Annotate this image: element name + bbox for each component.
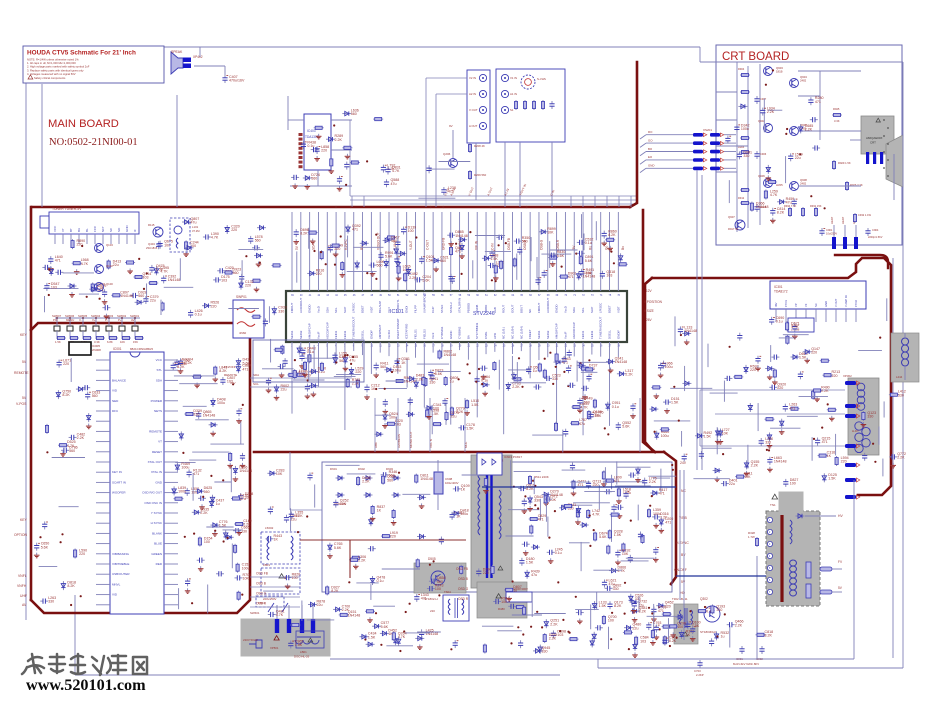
svg-text:560: 560 xyxy=(311,177,317,181)
resistor (right mid column) xyxy=(889,390,906,398)
svg-text:TN1: TN1 xyxy=(770,503,776,507)
svg-text:220: 220 xyxy=(334,247,340,251)
resistor (power box) xyxy=(594,532,608,542)
svg-text:1u: 1u xyxy=(533,369,537,373)
svg-text:STACL2: STACL2 xyxy=(449,302,453,313)
resistor (power regulation area) xyxy=(605,476,622,484)
FBT HV diode xyxy=(796,515,805,517)
svg-text:DSELL: DSELL xyxy=(608,329,612,339)
capacitor (above IC101 band) xyxy=(579,268,594,277)
capacitor (below IC101 upper) xyxy=(567,350,572,358)
capacitor (secondary rectifiers) xyxy=(544,497,552,502)
wire (above IC101 band) xyxy=(347,236,349,258)
IC101 bottom pin stubs xyxy=(291,342,293,414)
FBT core xyxy=(780,515,783,602)
svg-text:L5002: L5002 xyxy=(265,526,274,530)
wire (power bottom row) xyxy=(512,614,542,616)
svg-text:CYBSIN1: CYBSIN1 xyxy=(440,326,444,339)
svg-text:4.7K: 4.7K xyxy=(580,406,588,410)
svg-text:2.2K: 2.2K xyxy=(243,523,251,527)
svg-text:VID: VID xyxy=(112,389,118,393)
resistor (IF area) xyxy=(224,268,242,276)
resistor (bottom right) xyxy=(635,636,649,646)
resistor (below IC101 mid cluster) xyxy=(445,411,459,421)
resistor (deflection box) xyxy=(786,335,789,345)
junction (secondary rectifiers) xyxy=(554,510,556,512)
IC001 body xyxy=(110,352,164,614)
wire (power regulation area) xyxy=(598,485,600,509)
capacitor (power box) xyxy=(381,470,398,478)
svg-text:XTAL OUT: XTAL OUT xyxy=(148,460,163,464)
junction (IF area) xyxy=(245,255,247,257)
resistor (power box) xyxy=(365,610,375,623)
wire (deflection box) xyxy=(747,445,749,469)
wire (power regulation area) xyxy=(616,461,618,484)
resistor (power bottom band) xyxy=(483,644,486,654)
svg-text:LPISEC: LPISEC xyxy=(599,303,603,313)
junction (power bottom row) xyxy=(522,633,524,635)
crystal box xyxy=(253,340,364,382)
svg-text:220: 220 xyxy=(841,460,847,464)
wire (power bottom band) xyxy=(386,645,413,647)
capacitor (tuner area) xyxy=(156,241,161,249)
resistor (tuner area) xyxy=(72,258,89,274)
diode (above IC101 band) xyxy=(406,267,410,276)
junction (power box) xyxy=(409,603,411,605)
svg-text:1K: 1K xyxy=(461,488,466,492)
wire (below IC101 upper) xyxy=(334,376,356,378)
svg-text:1.5K: 1.5K xyxy=(339,355,347,359)
capacitor (left of MCU) xyxy=(82,385,90,390)
power top rail xyxy=(289,452,291,510)
junction (right of MCU) xyxy=(242,404,244,406)
capacitor (below IC101 upper) xyxy=(526,365,541,374)
svg-text:TDA1308: TDA1308 xyxy=(305,135,319,139)
svg-text:1N4148: 1N4148 xyxy=(774,459,787,463)
diode (below IC101 upper) xyxy=(414,380,418,389)
svg-text:BA: BA xyxy=(466,335,470,339)
svg-text:GREEN: GREEN xyxy=(151,552,162,556)
resistor (right of MCU) xyxy=(184,409,202,417)
capacitor (power bottom row) xyxy=(551,629,566,638)
svg-text:1K: 1K xyxy=(401,361,406,365)
diode (power bottom band) xyxy=(359,632,376,640)
capacitor (bottom right) xyxy=(709,638,714,646)
capacitor (left of MCU) xyxy=(57,359,72,368)
svg-text:100: 100 xyxy=(204,540,210,544)
resistor (below IC101 upper) xyxy=(438,350,456,360)
wire (below IC101 upper) xyxy=(581,371,598,373)
resistor (deflection box) xyxy=(660,428,670,431)
junction (right of MCU) xyxy=(210,475,212,477)
resistor (power bottom band) xyxy=(569,638,579,641)
svg-text:C907: C907 xyxy=(760,97,767,101)
wire (power box) xyxy=(314,484,316,507)
resistor (below IC101 upper) xyxy=(555,353,558,363)
wire (deflection box) xyxy=(787,415,818,417)
vertical bus from CRT to bottom xyxy=(696,170,698,470)
AV return wires xyxy=(426,77,467,79)
svg-text:330: 330 xyxy=(613,587,619,591)
svg-text:PBOBD: PBOBD xyxy=(466,303,470,313)
svg-text:5.6K: 5.6K xyxy=(334,546,342,550)
svg-text:2.2K: 2.2K xyxy=(549,637,557,641)
wire (power box) xyxy=(263,590,293,592)
resistor (above IC101 band) xyxy=(404,272,418,282)
capacitor (tuner area) xyxy=(44,282,59,291)
svg-text:C901: C901 xyxy=(826,228,833,232)
junction (below IC101 upper) xyxy=(307,379,309,381)
svg-text:2.2K: 2.2K xyxy=(735,623,743,627)
capacitor (deflection box) xyxy=(769,382,786,390)
wire (above IC101 band) xyxy=(541,253,571,255)
diode (right of MCU) xyxy=(209,423,218,436)
svg-text:3.3K: 3.3K xyxy=(834,119,840,123)
junction (power box) xyxy=(429,564,431,566)
capacitor (audio top-left) xyxy=(344,162,349,170)
svg-text:8.2K: 8.2K xyxy=(526,487,534,491)
junction (CRT board) xyxy=(772,69,774,71)
svg-text:VccIF: VccIF xyxy=(563,331,567,339)
svg-text:2.2K: 2.2K xyxy=(409,276,417,280)
wire (power box) xyxy=(307,619,334,621)
diode (deflection box) xyxy=(682,331,691,344)
svg-text:2.2K: 2.2K xyxy=(625,372,633,376)
diode (power regulation area) xyxy=(635,467,641,483)
resistor (bottom right) xyxy=(756,630,774,638)
junction (power regulation area) xyxy=(589,545,591,547)
svg-text:220: 220 xyxy=(245,284,251,288)
capacitor (deflection box) xyxy=(682,454,688,462)
diode (crystal box area) xyxy=(343,355,358,371)
CRT socket contacts xyxy=(866,152,869,164)
junction (right of MCU) xyxy=(241,594,243,596)
capacitor (right of MCU) xyxy=(197,558,205,572)
junction (power box) xyxy=(348,581,350,583)
svg-text:GOUT: GOUT xyxy=(511,304,515,313)
capacitor (CRT board) xyxy=(788,152,803,161)
junction (deflection box) xyxy=(821,427,823,429)
junction (secondary rectifiers) xyxy=(534,504,536,506)
junction (above IC101 band) xyxy=(561,266,563,268)
C480 snubber xyxy=(506,592,532,602)
wire (above IC101 band) xyxy=(549,241,551,268)
resistor (above IC101 band) xyxy=(331,244,341,257)
svg-text:100: 100 xyxy=(790,482,796,486)
junction (CRT board) xyxy=(824,207,826,209)
resistor (secondary rectifiers) xyxy=(529,514,547,522)
capacitor (crystal box area) xyxy=(332,351,347,360)
resistor (below IC101 mid cluster) xyxy=(432,423,442,426)
junction (crystal box area) xyxy=(350,363,352,365)
capacitor (bottom right) xyxy=(727,620,744,628)
svg-text:103: 103 xyxy=(640,639,646,643)
svg-text:IceB: IceB xyxy=(493,307,497,313)
svg-text:47u: 47u xyxy=(579,422,585,426)
capacitor (power box) xyxy=(602,579,617,588)
resistor (power box) xyxy=(575,508,581,524)
wire (right of MCU) xyxy=(192,473,194,501)
capacitor (left of MCU) xyxy=(61,445,78,453)
resistor (below IC101 upper) xyxy=(356,379,359,389)
wire (IF area) xyxy=(268,306,270,323)
svg-text:0.1u: 0.1u xyxy=(776,319,783,323)
junction (power box) xyxy=(651,612,653,614)
diode (right of MCU) xyxy=(210,495,214,504)
AV jack block 1 xyxy=(467,70,490,143)
blue drop from top rail xyxy=(699,47,701,62)
capacitor (below IC101 upper) xyxy=(300,347,315,356)
diode (below IC101 upper) xyxy=(384,365,401,373)
capacitor (right of MCU) xyxy=(185,578,191,593)
junction (power box) xyxy=(405,611,407,613)
svg-text:NED: NED xyxy=(112,399,119,403)
wire (crystal box area) xyxy=(262,368,294,370)
capacitor (right of MCU) xyxy=(174,358,189,367)
svg-text:IC001: IC001 xyxy=(113,347,122,351)
wire (above IC101 band) xyxy=(353,246,383,248)
svg-text:1.5K: 1.5K xyxy=(368,635,376,639)
capacitor (above IC101 band) xyxy=(536,277,542,285)
resistor (deflection box) xyxy=(765,418,775,421)
svg-text:NOTE: R=1/4W unless otherwise: NOTE: R=1/4W unless otherwise noted 1% xyxy=(27,58,79,62)
svg-text:H SYNC: H SYNC xyxy=(151,521,163,525)
diode (deflection box) xyxy=(655,430,670,440)
diode (IF area) xyxy=(185,246,194,250)
wire (below IC101 upper) xyxy=(508,369,530,371)
wire (CRT board) xyxy=(728,180,730,203)
svg-text:2200p/1.5KV: 2200p/1.5KV xyxy=(868,236,883,239)
wire (power box) xyxy=(637,505,639,521)
svg-text:1N4148: 1N4148 xyxy=(444,353,457,357)
resistor (audio top-left) xyxy=(329,157,335,173)
wire (left of MCU) xyxy=(59,506,79,508)
svg-text:ST1803DHI: ST1803DHI xyxy=(700,630,716,634)
junction (above IC101 band) xyxy=(366,272,368,274)
degauss gray block xyxy=(241,619,330,656)
diode (power regulation area) xyxy=(659,517,674,533)
svg-text:SPEAK: SPEAK xyxy=(171,50,183,54)
capacitor (right of MCU) xyxy=(198,496,206,510)
capacitor (above IC101 band) xyxy=(447,230,468,246)
svg-text:8.2K: 8.2K xyxy=(639,610,647,614)
svg-text:SDA: SDA xyxy=(156,378,162,382)
wire (right mid column) xyxy=(878,427,880,445)
svg-text:100u: 100u xyxy=(242,566,250,570)
diode (below IC101 upper) xyxy=(554,357,571,365)
wire (below IC101 upper) xyxy=(577,361,610,363)
svg-text:XS201: XS201 xyxy=(703,128,712,132)
wire (power box) xyxy=(573,502,610,504)
resistor (power box) xyxy=(587,509,601,519)
capacitor (power bottom row) xyxy=(662,638,668,646)
IC001 pins xyxy=(96,359,110,361)
svg-text:VOL N: VOL N xyxy=(429,439,433,448)
svg-text:SEIN2: SEIN2 xyxy=(546,330,550,339)
wire (bottom right) xyxy=(653,604,655,633)
FBT top cap gray xyxy=(779,492,803,511)
capacitor (CRT board) xyxy=(770,207,785,223)
resistor (power box) xyxy=(563,504,573,507)
svg-text:IC601 PC817: IC601 PC817 xyxy=(504,455,522,459)
svg-text:LB01: LB01 xyxy=(300,650,307,654)
svg-text:R912: R912 xyxy=(738,196,745,200)
capacitor (CRT board) xyxy=(792,199,798,207)
svg-text:100u: 100u xyxy=(460,512,468,516)
diode (bottom right) xyxy=(714,631,729,641)
capacitor (deflection box) xyxy=(663,397,680,413)
yoke connector XP302 xyxy=(845,381,856,385)
capacitor (deflection box) xyxy=(699,451,704,459)
svg-text:1.5K: 1.5K xyxy=(219,524,227,528)
capacitor (above IC101 band) xyxy=(542,270,548,278)
resistor (power box) xyxy=(523,606,526,616)
svg-text:NC: NC xyxy=(528,309,532,313)
wire (deflection box) xyxy=(811,437,813,461)
HOT Q302 xyxy=(704,606,720,622)
junction (power regulation area) xyxy=(630,520,632,522)
diode (CRT board) xyxy=(777,197,794,205)
resistor (power box) xyxy=(571,480,587,496)
CRT socket pins xyxy=(883,119,885,121)
capacitor (tuner area) xyxy=(48,255,63,271)
capacitor (power box) xyxy=(419,628,438,637)
wire (power box) xyxy=(356,582,378,584)
capacitor (deflection box) xyxy=(771,355,779,360)
capacitor (power box) xyxy=(651,606,666,622)
svg-text:R115: R115 xyxy=(148,223,155,227)
wire (tuner area) xyxy=(79,293,99,295)
capacitor (below IC101 upper) xyxy=(395,357,410,366)
wire (secondary rectifiers) xyxy=(533,477,535,494)
diode (below IC101 mid cluster) xyxy=(425,403,442,419)
svg-text:560: 560 xyxy=(351,112,357,116)
diode (left of MCU) xyxy=(56,390,71,400)
FBT gray body xyxy=(766,511,820,606)
svg-text:220: 220 xyxy=(430,609,435,613)
svg-text:5.6K: 5.6K xyxy=(599,535,607,539)
junction (tuner area) xyxy=(86,296,88,298)
svg-text:ROUT: ROUT xyxy=(502,305,506,313)
svg-text:L101: L101 xyxy=(192,225,199,229)
resistor (below IC101 mid cluster) xyxy=(426,408,440,418)
junction (power box) xyxy=(589,515,591,517)
resistor (power box) xyxy=(483,477,489,493)
wire (below IC101 upper) xyxy=(417,363,449,365)
capacitor (power box) xyxy=(628,473,636,478)
wire (tuner area) xyxy=(43,287,78,289)
diode (power bottom band) xyxy=(533,646,550,654)
svg-text:SCART IN: SCART IN xyxy=(112,480,126,484)
C901 cap xyxy=(821,228,823,231)
junction (below IC101 upper) xyxy=(552,383,554,385)
svg-text:DFC: DFC xyxy=(112,409,119,413)
capacitor (deflection box) xyxy=(737,333,742,341)
diode (below IC101 upper) xyxy=(617,369,634,377)
capacitor (tuner area) xyxy=(55,270,63,275)
svg-text:REMOTE: REMOTE xyxy=(14,371,29,375)
svg-text:470u/16V: 470u/16V xyxy=(229,79,245,83)
resistor (power box) xyxy=(416,558,419,568)
svg-text:RO: RO xyxy=(648,130,653,134)
svg-text:Go: Go xyxy=(605,246,609,250)
svg-text:1u: 1u xyxy=(450,380,454,384)
resistor (power regulation area) xyxy=(610,513,620,516)
junction (power box) xyxy=(306,515,308,517)
junction (tuner area) xyxy=(143,288,145,290)
resistor (power box) xyxy=(530,525,533,535)
diode (power box) xyxy=(327,542,342,558)
capacitor (tuner area) xyxy=(102,289,108,304)
capacitor (crystal box area) xyxy=(278,364,286,378)
svg-text:2.2K: 2.2K xyxy=(335,138,343,142)
resistor (below IC101 upper) xyxy=(538,363,541,373)
diode (deflection box) xyxy=(715,428,730,444)
svg-text:0.1u: 0.1u xyxy=(307,350,314,354)
resistor (deflection box) xyxy=(786,321,800,331)
wire (power regulation area) xyxy=(611,516,613,542)
junction (right of MCU) xyxy=(226,537,228,539)
diode (above IC101 band) xyxy=(458,238,467,242)
svg-text:GNDD: GNDD xyxy=(308,304,312,313)
wire (power regulation area) xyxy=(570,481,590,483)
resistor (secondary rectifiers) xyxy=(544,494,558,504)
heater run xyxy=(756,556,758,659)
resistor (deflection box) xyxy=(735,472,752,480)
svg-text:1.7W: 1.7W xyxy=(748,535,755,539)
wire (right of MCU) xyxy=(189,459,216,461)
svg-text:2.2K: 2.2K xyxy=(649,480,657,484)
main board border right edge xyxy=(643,210,655,452)
svg-text:2.2K: 2.2K xyxy=(821,389,829,393)
resistor (power box) xyxy=(392,631,406,641)
svg-text:R931 15K: R931 15K xyxy=(810,204,822,208)
resistor (tuner area) xyxy=(161,302,164,312)
svg-text:5.6K: 5.6K xyxy=(422,278,430,282)
svg-text:471: 471 xyxy=(538,518,544,522)
wire (deflection box) xyxy=(783,334,809,336)
junction (below IC101 upper) xyxy=(397,361,399,363)
resistor (above IC101 band) xyxy=(386,236,396,239)
svg-text:SLIP: SLIP xyxy=(343,307,347,313)
capacitor (above IC101 band) xyxy=(414,275,431,283)
capacitor (above IC101 band) xyxy=(577,237,594,245)
svg-text:HEAT: HEAT xyxy=(830,216,834,224)
svg-text:SW601: SW601 xyxy=(250,611,260,615)
capacitor (power regulation area) xyxy=(653,547,659,562)
junction (power box) xyxy=(398,472,400,474)
svg-text:100u: 100u xyxy=(389,416,397,420)
svg-text:NETS: NETS xyxy=(154,409,162,413)
resistor (power box) xyxy=(381,531,398,539)
diode (power box) xyxy=(393,636,397,645)
diode (power bottom row) xyxy=(592,601,606,611)
resistor (deflection box) xyxy=(733,375,743,378)
svg-text:R480: R480 xyxy=(498,607,505,611)
diode (deflection box) xyxy=(744,364,759,374)
wire (deflection box) xyxy=(757,403,759,431)
capacitor (power box) xyxy=(615,549,630,565)
diode (deflection box) xyxy=(791,352,808,360)
diode (power box) xyxy=(629,593,644,603)
svg-text:GND: GND xyxy=(648,164,654,168)
svg-text:T604: T604 xyxy=(444,590,451,594)
diode (right of MCU) xyxy=(172,486,186,496)
wire (below IC101 upper) xyxy=(406,358,408,387)
title warning triangle xyxy=(28,75,33,79)
svg-text:1.5K: 1.5K xyxy=(426,259,434,263)
wire (crystal box area) xyxy=(313,345,315,370)
